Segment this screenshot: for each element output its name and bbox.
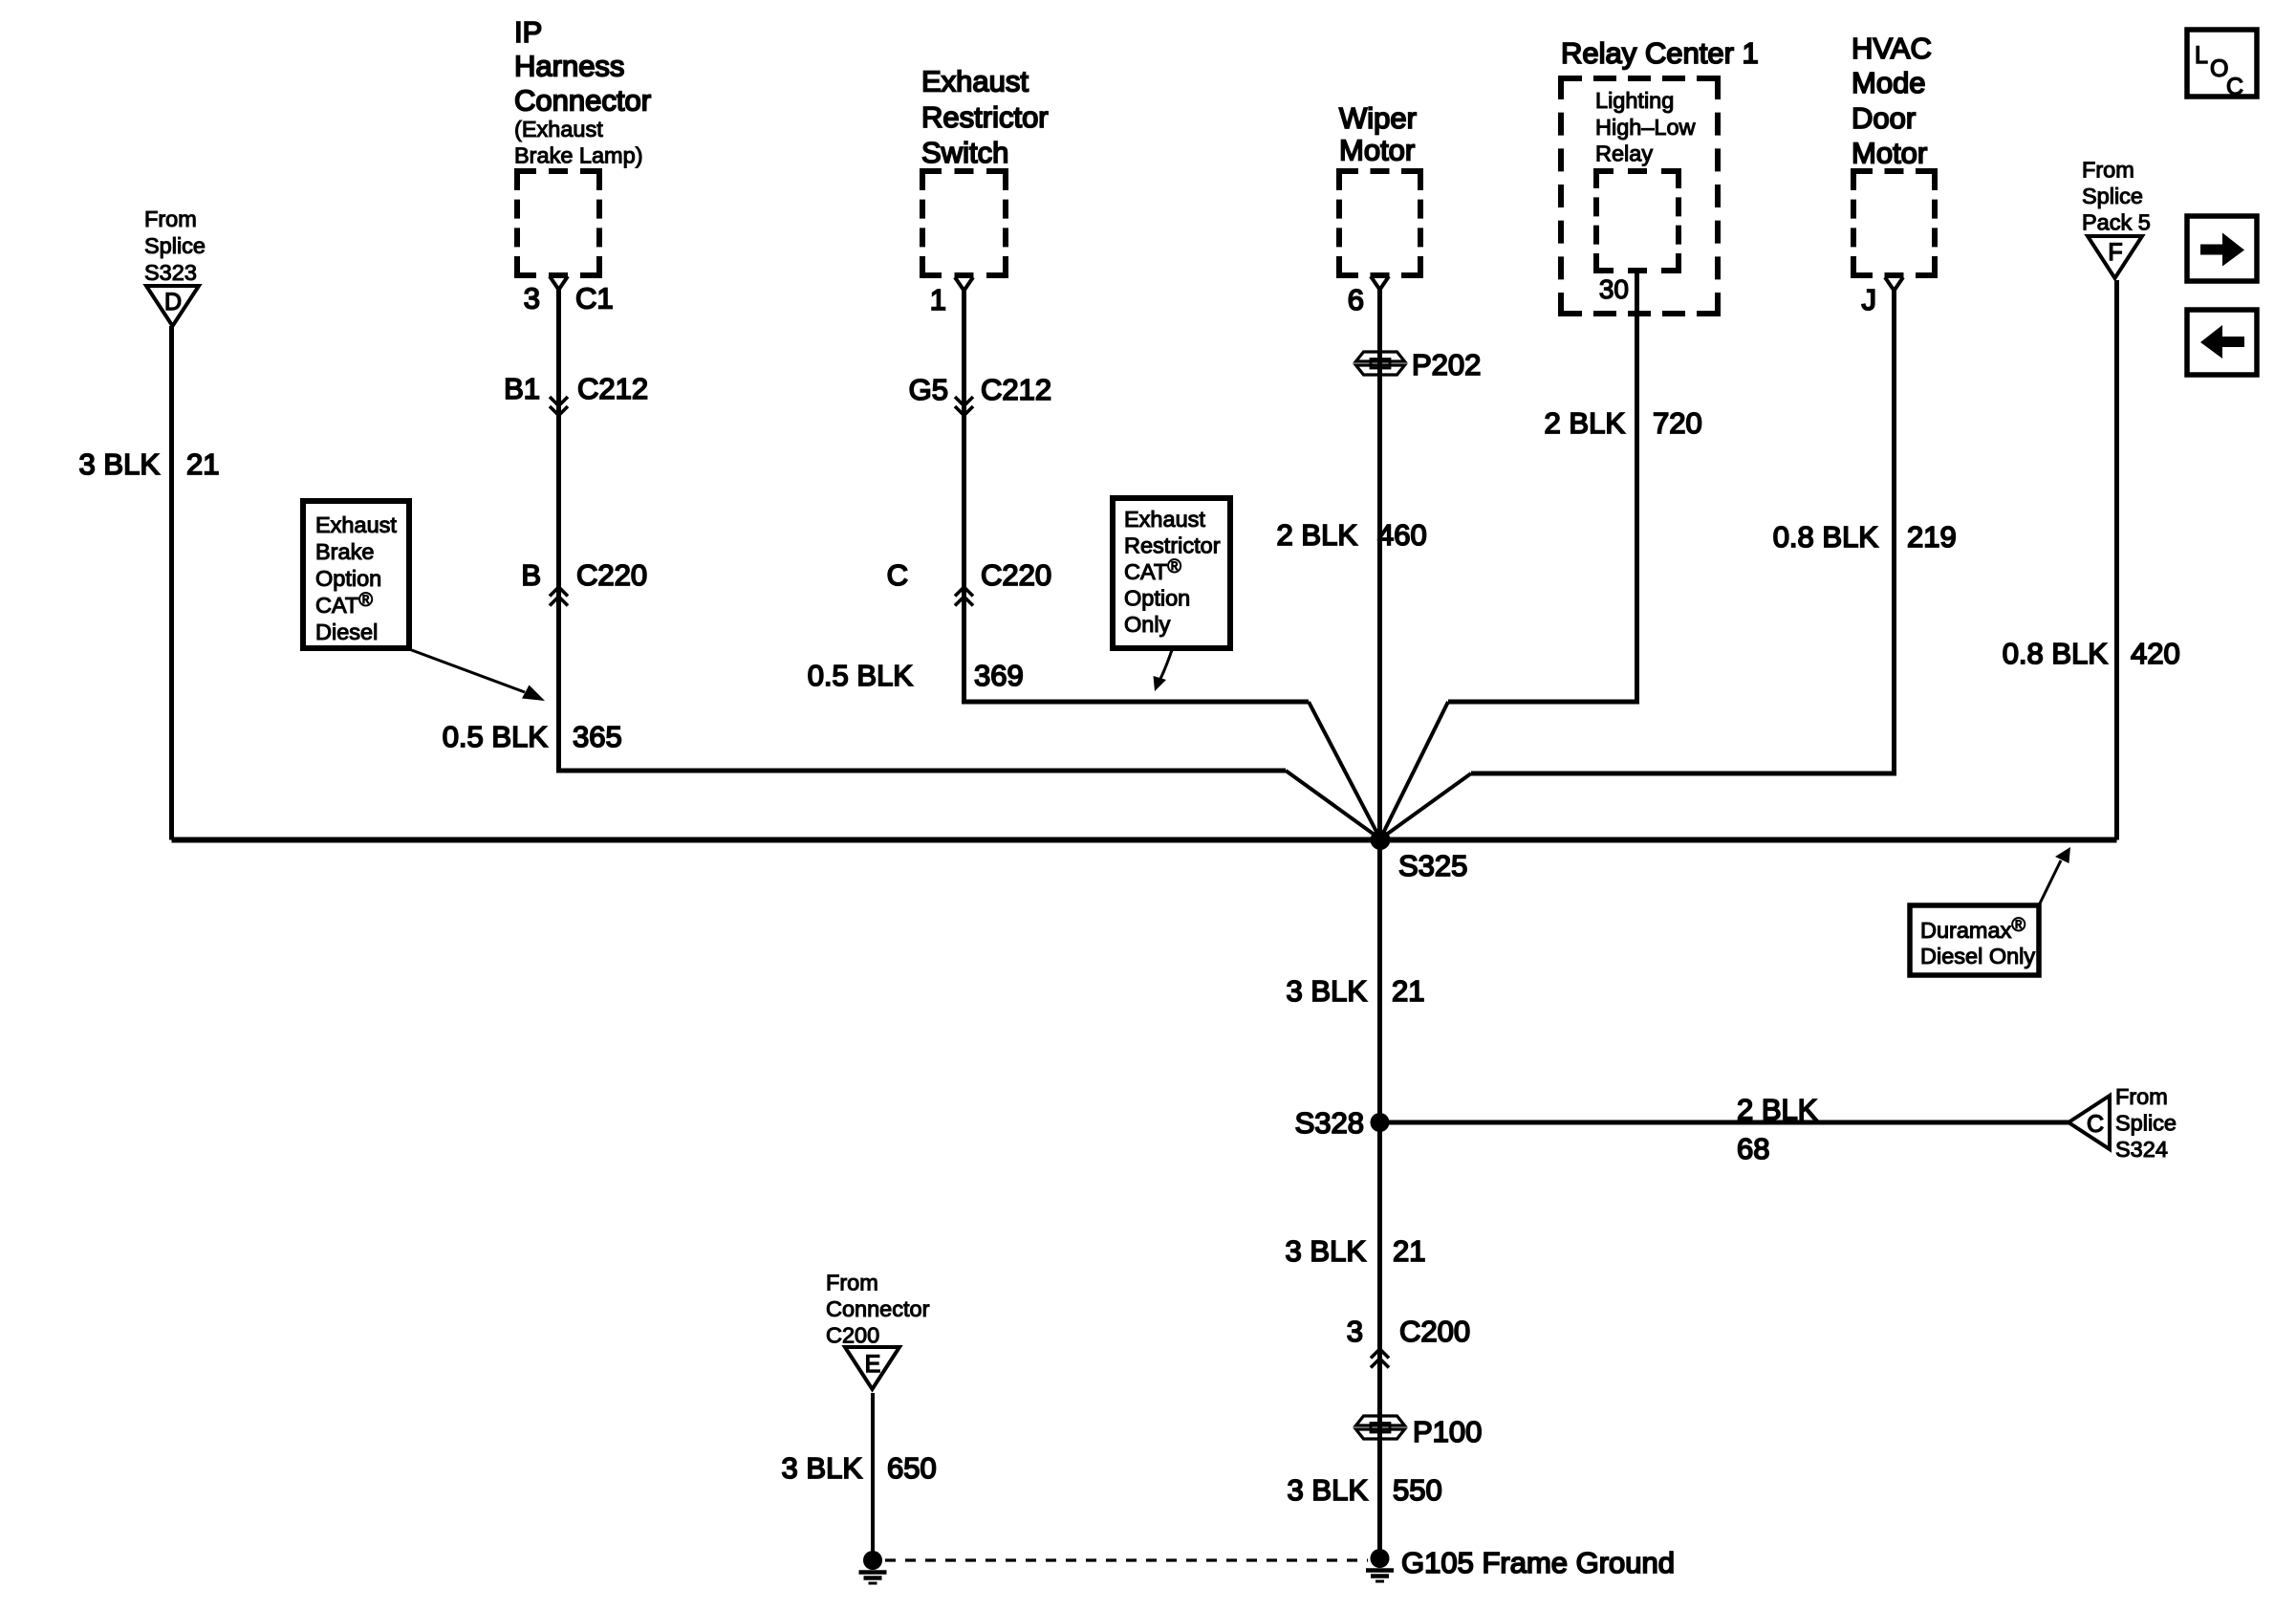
- svg-text:21: 21: [1392, 974, 1424, 1008]
- svg-text:F: F: [2108, 239, 2122, 266]
- svg-text:Relay Center 1: Relay Center 1: [1561, 36, 1759, 70]
- svg-text:From: From: [826, 1271, 878, 1295]
- connector C200 chevrons on ground wire: [1371, 1349, 1389, 1368]
- wire: 0.8 BLK 219 from HVAC mode door motor, corner, into S325: [1471, 291, 1895, 773]
- svg-text:C212: C212: [981, 373, 1051, 406]
- ground G105 frame ground symbol: [1371, 1549, 1390, 1568]
- svg-text:365: 365: [573, 720, 622, 753]
- svg-text:21: 21: [1393, 1234, 1425, 1268]
- svg-text:Motor: Motor: [1339, 134, 1415, 167]
- svg-text:Splice: Splice: [144, 233, 206, 258]
- wire: dashed link between E ground and G105: [885, 1558, 1368, 1561]
- grommet P100 on frame ground wire: [1356, 1416, 1405, 1425]
- off-page triangle F (from splice pack 5): [2088, 236, 2142, 278]
- svg-text:3: 3: [1347, 1315, 1363, 1348]
- svg-text:C1: C1: [575, 282, 614, 315]
- svg-text:C200: C200: [826, 1323, 879, 1348]
- svg-text:HVAC: HVAC: [1852, 32, 1932, 65]
- LOC legend box: [2187, 30, 2257, 97]
- pin fork at exhaust restrictor switch pin 1: [955, 277, 973, 291]
- svg-text:720: 720: [1653, 406, 1702, 440]
- connector C220 chevrons on IP wire: [550, 587, 568, 606]
- Wiper Motor dashed box: [1339, 171, 1420, 275]
- svg-text:3 BLK: 3 BLK: [1287, 974, 1368, 1008]
- svg-text:High–Low: High–Low: [1595, 115, 1697, 140]
- wire: 2 BLK 720 from relay center, corner, into S325: [1448, 271, 1637, 702]
- note box: Exhaust Restrictor CAT Option Only: [1113, 498, 1230, 648]
- svg-text:L: L: [2195, 42, 2208, 69]
- wire: slant of 365 branch into S325: [1286, 771, 1380, 839]
- svg-text:Motor: Motor: [1852, 136, 1927, 169]
- svg-text:550: 550: [1393, 1473, 1442, 1507]
- svg-text:Lighting: Lighting: [1595, 88, 1674, 113]
- svg-text:219: 219: [1907, 520, 1957, 554]
- svg-text:460: 460: [1377, 518, 1427, 552]
- svg-text:3 BLK: 3 BLK: [1288, 1473, 1369, 1507]
- svg-text:G5: G5: [909, 373, 948, 406]
- svg-text:D: D: [164, 289, 182, 315]
- svg-text:3 BLK: 3 BLK: [79, 447, 161, 481]
- node S328 splice junction dot: [1371, 1113, 1390, 1132]
- svg-text:0.8 BLK: 0.8 BLK: [2003, 637, 2109, 670]
- wire: 0.5 BLK 369 from exhaust restrictor switch, corner, into S325: [964, 291, 1310, 702]
- svg-text:B1: B1: [504, 372, 540, 405]
- svg-text:Connector: Connector: [826, 1296, 930, 1321]
- svg-text:C: C: [2087, 1111, 2104, 1138]
- svg-text:420: 420: [2131, 637, 2180, 670]
- svg-text:Exhaust: Exhaust: [1124, 507, 1205, 532]
- svg-text:Restrictor: Restrictor: [1124, 533, 1221, 558]
- svg-text:6: 6: [1348, 283, 1364, 316]
- svg-text:Splice: Splice: [2082, 184, 2143, 208]
- svg-text:IP: IP: [514, 15, 542, 49]
- Relay Center 1 outer dashed box: [1561, 78, 1718, 314]
- svg-text:Door: Door: [1852, 101, 1916, 135]
- svg-text:Diesel: Diesel: [315, 620, 378, 644]
- svg-text:0.8 BLK: 0.8 BLK: [1773, 520, 1879, 554]
- nav box with right arrow: [2187, 216, 2257, 281]
- svg-text:Diesel Only: Diesel Only: [1920, 944, 2035, 968]
- svg-text:C: C: [2226, 74, 2243, 100]
- svg-text:P202: P202: [1412, 348, 1481, 381]
- svg-text:21: 21: [186, 447, 219, 481]
- svg-text:(Exhaust: (Exhaust: [514, 117, 603, 141]
- svg-text:68: 68: [1737, 1132, 1769, 1165]
- Lighting High-Low Relay inner dashed box: [1596, 171, 1679, 271]
- node S325 splice junction dot: [1371, 830, 1391, 850]
- svg-text:S324: S324: [2115, 1137, 2168, 1162]
- svg-text:From: From: [144, 207, 197, 231]
- svg-text:3 BLK: 3 BLK: [1286, 1234, 1367, 1268]
- nav box with left arrow: [2187, 310, 2257, 375]
- note box: Exhaust Brake Option CAT Diesel: [303, 501, 409, 648]
- svg-text:2 BLK: 2 BLK: [1545, 406, 1626, 440]
- svg-text:3: 3: [524, 282, 540, 315]
- svg-text:G105 Frame Ground: G105 Frame Ground: [1401, 1546, 1675, 1579]
- svg-text:Option: Option: [315, 566, 381, 591]
- pin fork at IP harness connector pin 3: [550, 276, 568, 290]
- svg-text:From: From: [2082, 158, 2134, 183]
- svg-text:C: C: [887, 558, 908, 592]
- connector C212 chevrons on IP wire: [550, 397, 568, 416]
- svg-text:C200: C200: [1399, 1315, 1470, 1348]
- svg-text:Wiper: Wiper: [1339, 101, 1417, 135]
- svg-text:3 BLK: 3 BLK: [782, 1451, 863, 1485]
- svg-text:Exhaust: Exhaust: [921, 65, 1029, 98]
- svg-text:S323: S323: [144, 260, 197, 285]
- note box: Duramax Diesel Only: [1910, 905, 2039, 975]
- wire: main horizontal ground bus into S325: [172, 838, 2117, 843]
- svg-text:S325: S325: [1398, 849, 1467, 882]
- svg-text:C220: C220: [981, 558, 1051, 592]
- Exhaust Restrictor Switch dashed box: [922, 171, 1006, 275]
- svg-text:S328: S328: [1295, 1106, 1364, 1140]
- arrow from exhaust brake option box to IP wire: [409, 649, 525, 692]
- svg-text:Option: Option: [1124, 586, 1190, 611]
- off-page triangle C (from splice S324), points left: [2069, 1096, 2110, 1149]
- pin fork at HVAC mode door motor pin J: [1885, 277, 1903, 291]
- svg-text:C212: C212: [577, 372, 648, 405]
- wire: 2 BLK 68 branch from S328 to splice S324 (C): [1380, 1120, 2069, 1125]
- svg-text:Brake: Brake: [315, 539, 374, 564]
- svg-text:2 BLK: 2 BLK: [1737, 1093, 1818, 1126]
- wire: slant of 219 branch into S325: [1380, 773, 1471, 839]
- svg-text:C220: C220: [576, 558, 647, 592]
- svg-text:Relay: Relay: [1595, 141, 1653, 166]
- arrow from exhaust restrictor option box to 369 wire: [1159, 650, 1172, 681]
- wire: 0.5 BLK 365 from IP harness connector, corner, into S325: [559, 290, 1287, 771]
- IP Harness Connector dashed box: [517, 171, 599, 275]
- svg-text:2 BLK: 2 BLK: [1277, 518, 1358, 552]
- svg-text:From: From: [2115, 1084, 2168, 1109]
- svg-text:Restrictor: Restrictor: [921, 100, 1049, 134]
- grommet P202 on wiper motor wire: [1356, 352, 1405, 361]
- svg-text:Harness: Harness: [514, 50, 624, 83]
- svg-text:E: E: [865, 1351, 881, 1378]
- svg-text:Brake Lamp): Brake Lamp): [514, 143, 643, 168]
- arrow from Duramax box to ground bus: [2039, 860, 2061, 905]
- svg-text:1: 1: [930, 283, 946, 316]
- svg-text:Mode: Mode: [1852, 66, 1926, 99]
- svg-text:Splice: Splice: [2115, 1111, 2177, 1136]
- svg-text:369: 369: [974, 659, 1024, 692]
- svg-text:B: B: [521, 558, 541, 592]
- connector C220 chevrons on restrictor wire: [955, 587, 973, 606]
- svg-text:J: J: [1862, 283, 1877, 316]
- off-page triangle D (from splice S323): [146, 286, 199, 326]
- svg-text:650: 650: [887, 1451, 937, 1485]
- svg-text:30: 30: [1599, 274, 1629, 304]
- svg-text:Duramax®: Duramax®: [1920, 915, 2025, 943]
- svg-text:0.5 BLK: 0.5 BLK: [808, 659, 914, 692]
- HVAC Mode Door Motor dashed box: [1853, 171, 1935, 275]
- svg-text:Connector: Connector: [514, 84, 651, 118]
- svg-text:Pack 5: Pack 5: [2082, 210, 2151, 235]
- wire: 3 BLK 650 from connector C200 (E) down to ground: [871, 1393, 875, 1558]
- svg-text:P100: P100: [1413, 1415, 1482, 1448]
- off-page triangle E (from connector C200): [845, 1347, 899, 1389]
- wire: slant of 369 branch into S325: [1309, 702, 1380, 839]
- svg-text:Switch: Switch: [921, 136, 1008, 169]
- ground symbol at connector C200 drop (E): [863, 1551, 882, 1570]
- wire: 3 BLK 21 from splice S323 (D) down to main ground bus: [169, 326, 174, 840]
- wire: slant of 720 branch into S325: [1380, 702, 1448, 839]
- svg-text:Exhaust: Exhaust: [315, 512, 397, 537]
- svg-text:Only: Only: [1124, 612, 1171, 637]
- svg-text:0.5 BLK: 0.5 BLK: [443, 720, 549, 753]
- wire: 0.8 BLK 420 from splice pack 5 (F) down to bus: [2114, 280, 2119, 840]
- wire: 2 BLK 460 wiper motor wire down through S325/S328 to G105: [1377, 290, 1382, 1558]
- pin fork at wiper motor pin 6: [1371, 276, 1389, 290]
- connector C212 chevrons on restrictor wire: [955, 397, 973, 416]
